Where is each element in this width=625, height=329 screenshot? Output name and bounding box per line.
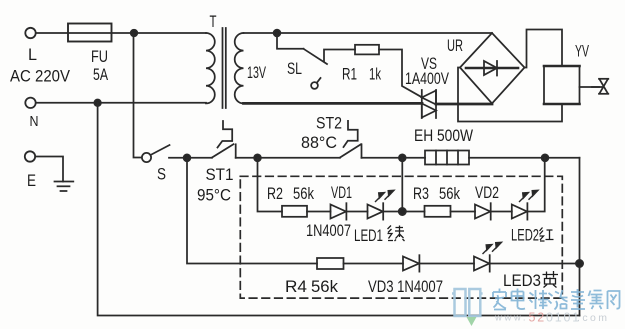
svg-text:SL: SL	[287, 59, 302, 78]
svg-text:LED2: LED2	[511, 226, 539, 245]
wire R2 to VD1	[307, 211, 331, 213]
svg-text:R3: R3	[413, 184, 429, 203]
dashed indicator board outline	[240, 176, 562, 298]
terminal E	[25, 151, 35, 161]
svg-text:ST1: ST1	[206, 165, 234, 184]
wire node to ST1	[187, 157, 212, 159]
bridge internal diode	[466, 61, 518, 76]
diode VD3	[403, 255, 419, 271]
svg-text:88°C: 88°C	[301, 133, 337, 152]
solenoid valve YV coil	[544, 66, 580, 104]
wire VD1 to LED1	[346, 211, 367, 213]
wire LED3 to right rail	[490, 263, 580, 265]
svg-text:www.: www.	[494, 313, 528, 324]
wire ST1 to node A	[236, 157, 258, 159]
LED2 arrows	[520, 190, 539, 201]
resistor R1	[355, 45, 379, 55]
wire VD2 to LED2	[491, 211, 512, 213]
resistor R2	[282, 206, 307, 217]
wire LED2 to node C	[527, 158, 544, 212]
switch SL	[304, 49, 328, 89]
svg-text:56k: 56k	[311, 277, 338, 296]
LED2	[512, 203, 528, 219]
wire node B down	[401, 158, 403, 212]
svg-text:YV: YV	[575, 42, 589, 61]
svg-text:T: T	[210, 12, 217, 31]
node B2	[399, 208, 406, 215]
node A	[254, 154, 261, 161]
transformer core	[223, 28, 226, 108]
svg-text:0101: 0101	[546, 311, 581, 325]
wire N junction down and along bottom	[98, 103, 580, 316]
hanzi green for LED1	[388, 226, 405, 242]
wire bridge - output to YV bottom	[458, 68, 562, 122]
wire R3 to VD2	[451, 211, 476, 213]
wire node A to ST2	[258, 157, 341, 159]
wire right rail down	[579, 158, 581, 316]
heater EH 500W	[425, 151, 469, 165]
svg-text:AC 220V: AC 220V	[10, 67, 71, 86]
wire S node down to R4 row	[187, 158, 317, 264]
diode VD2	[475, 203, 491, 219]
node C	[542, 154, 549, 161]
svg-text:S: S	[157, 165, 166, 184]
svg-text:5A: 5A	[93, 65, 108, 84]
svg-text:UR: UR	[447, 36, 463, 55]
thermostat ST1	[212, 121, 236, 158]
LED1	[368, 203, 384, 219]
svg-text:VD3 1N4007: VD3 1N4007	[368, 277, 443, 296]
wire L junction down to switch S	[134, 33, 142, 158]
watermark text jiadian weixiu ziliao wang	[493, 289, 620, 310]
node S junction	[184, 154, 191, 161]
svg-text:1k: 1k	[369, 65, 381, 84]
transformer T secondary winding	[235, 33, 244, 103]
node N junction	[94, 100, 101, 107]
wire SL to R1	[324, 50, 355, 62]
wire E to ground	[35, 157, 63, 182]
fuse FU 5A	[68, 24, 112, 42]
svg-text:1N4007: 1N4007	[306, 221, 351, 240]
hanzi red for LED2	[540, 228, 554, 242]
svg-text:ST2: ST2	[316, 114, 342, 133]
wire LED1 to node B2	[383, 211, 424, 213]
wire N to transformer primary bottom	[36, 102, 206, 104]
node B	[399, 154, 406, 161]
wire junction down to SL pole	[277, 33, 304, 49]
svg-text:1A400V: 1A400V	[405, 69, 449, 88]
node SL junction	[274, 30, 281, 37]
svg-text:VD2: VD2	[475, 183, 499, 202]
svg-text:R4: R4	[285, 277, 307, 296]
svg-text:R2: R2	[267, 184, 283, 203]
wire R1 to VS gate	[379, 50, 421, 97]
wire bridge + output to YV top	[525, 30, 563, 68]
svg-text:EH 500W: EH 500W	[414, 126, 473, 145]
wire secondary top to bridge	[244, 32, 493, 34]
LED3 arrows	[483, 242, 502, 253]
svg-text:VD1: VD1	[331, 183, 352, 202]
wire VD3 to LED3	[419, 263, 474, 265]
ground	[55, 182, 74, 192]
wire YV to valve	[580, 86, 604, 88]
wire secondary bottom to VS	[244, 102, 423, 105]
resistor R4	[317, 258, 344, 269]
svg-text:56k: 56k	[439, 184, 460, 203]
wire L to fuse	[36, 32, 68, 34]
svg-text:95°C: 95°C	[197, 186, 231, 205]
wire R4 to VD3	[344, 263, 404, 265]
svg-text:LED1: LED1	[354, 226, 383, 245]
svg-text:E: E	[27, 171, 36, 190]
svg-text:13V: 13V	[247, 63, 266, 82]
svg-text:LED3: LED3	[503, 271, 541, 290]
hanzi yellow for LED3	[543, 271, 559, 288]
LED3	[474, 255, 490, 271]
svg-text:52: 52	[529, 311, 547, 325]
svg-text:FU: FU	[91, 47, 108, 66]
terminal L	[25, 28, 35, 38]
thermostat ST2	[340, 121, 362, 158]
svg-text:56k: 56k	[293, 184, 314, 203]
watermark url	[494, 311, 609, 325]
resistor R3	[425, 206, 451, 217]
switch S	[142, 145, 170, 162]
terminal N	[25, 98, 35, 108]
bridge rectifier UR	[460, 33, 525, 104]
svg-text:L: L	[28, 45, 37, 64]
wire VS to bridge bottom corner	[436, 103, 492, 106]
thyristor VS	[422, 90, 436, 118]
wire node A down to R2 row	[258, 158, 283, 212]
node L-S junction	[131, 30, 138, 37]
diode VD1	[331, 203, 347, 219]
LED1 arrows	[376, 190, 395, 201]
watermark book logo	[452, 289, 483, 316]
node D	[576, 260, 583, 267]
wire fuse to transformer primary	[112, 32, 207, 34]
watermark book check	[467, 317, 477, 326]
wire S to node	[169, 157, 187, 159]
svg-text:.com: .com	[577, 312, 609, 324]
transformer T primary winding	[206, 33, 215, 103]
valve symbol	[592, 79, 608, 94]
svg-text:R1: R1	[342, 65, 357, 84]
svg-text:N: N	[30, 114, 39, 130]
wire ST2 to EH	[362, 157, 426, 159]
wire EH to right rail	[469, 157, 580, 159]
